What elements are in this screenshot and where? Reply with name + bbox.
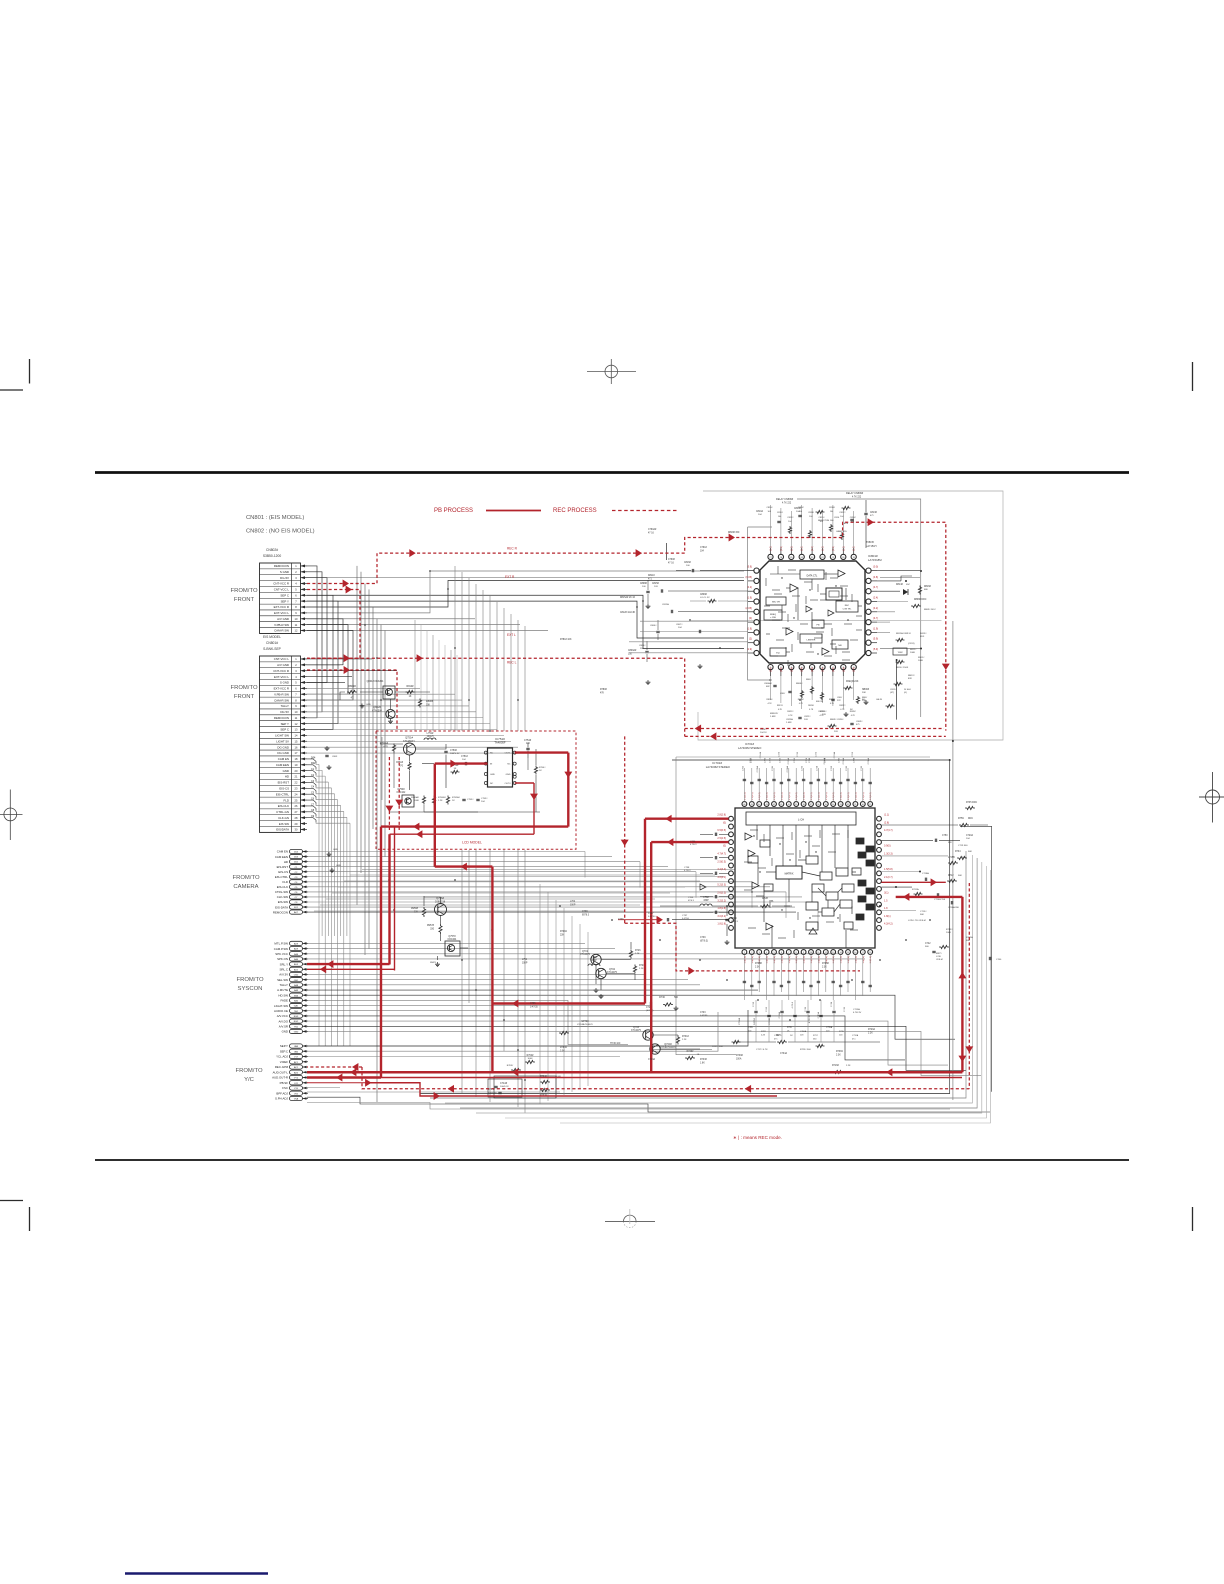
svg-text:100uH: 100uH [427, 736, 434, 738]
junction dots right nets [879, 570, 954, 907]
svg-text:TALLY: TALLY [281, 704, 289, 708]
svg-text:CAM EN: CAM EN [277, 850, 288, 854]
svg-text:YCL.ADJ: YCL.ADJ [276, 1055, 288, 1059]
dashed box LCD MODEL [376, 731, 576, 849]
svg-text:FLD: FLD [284, 798, 289, 802]
svg-text:C705: C705 [831, 765, 833, 771]
svg-text:CN2: CN2 [294, 975, 299, 977]
crop mark top-right [1192, 362, 1194, 391]
svg-text:L751#: L751# [427, 732, 434, 735]
svg-text:C706A: C706A [800, 1030, 807, 1033]
scattered labels syscon area [522, 901, 829, 968]
svg-text:(2.4): (2.4) [802, 667, 804, 672]
resistor R956 22K [411, 907, 426, 917]
svg-text:R713#: R713# [946, 929, 953, 931]
resistor R730 560 [659, 996, 678, 1006]
svg-text:S GND: S GND [280, 570, 289, 574]
svg-text:C810#: C810# [767, 507, 774, 509]
svg-text:R708#: R708# [755, 963, 762, 965]
svg-text:R739#: R739# [736, 1055, 743, 1057]
svg-text:EQ: EQ [776, 653, 779, 655]
svg-text:R956#: R956# [411, 907, 419, 910]
svg-text:R809# DDC: R809# DDC [924, 609, 936, 611]
svg-text:C751#: C751# [461, 756, 468, 758]
svg-text:1.4(1.4): 1.4(1.4) [804, 956, 806, 964]
resistor R750B [432, 796, 446, 805]
svg-text:C715#: C715# [920, 911, 927, 913]
svg-text:R809# C826#: R809# C826# [830, 719, 844, 721]
svg-text:1.0FF: 1.0FF [786, 722, 792, 724]
svg-text:C725: C725 [753, 1001, 755, 1007]
resistor R957 330 [427, 924, 442, 934]
svg-text:FADE: FADE [280, 999, 288, 1003]
svg-text:47 16: 47 16 [668, 562, 674, 564]
svg-text:LCD MODEL: LCD MODEL [462, 841, 482, 845]
svg-text:Y/C: Y/C [244, 1077, 255, 1083]
IC701 red pin labels bottom rotated [744, 956, 872, 964]
svg-text:1.4(1.4): 1.4(1.4) [848, 956, 850, 964]
svg-text:FLD: FLD [283, 880, 288, 884]
svg-text:C709: C709 [839, 757, 841, 763]
svg-text:MIC VR: MIC VR [772, 602, 780, 604]
svg-text:EXT-VCC L: EXT-VCC L [274, 675, 289, 679]
svg-text:(2): (2) [749, 638, 752, 641]
svg-text:1.4(1.4): 1.4(1.4) [752, 956, 754, 964]
svg-text:C738: C738 [582, 911, 588, 913]
bottom rule [95, 1159, 1129, 1161]
svg-text:C736: C736 [690, 841, 696, 843]
IC801 top pin row [768, 548, 856, 560]
svg-text:(1.9): (1.9) [791, 546, 793, 551]
svg-text:R751A#: R751A# [380, 742, 389, 745]
svg-text:82K: 82K [908, 678, 912, 680]
svg-text:SM23: SM23 [430, 962, 436, 964]
svg-text:HY36 100: HY36 100 [610, 1043, 621, 1045]
svg-text:C824#: C824# [760, 729, 767, 731]
IC801 internal logic blocks [764, 570, 862, 656]
svg-text:C732A: C732A [842, 757, 845, 764]
svg-text:4.7K: 4.7K [788, 715, 793, 717]
svg-text:2.2K: 2.2K [635, 953, 640, 955]
svg-text:CNT-VCC R: CNT-VCC R [273, 582, 289, 586]
svg-text:CLK-SW: CLK-SW [277, 895, 289, 899]
svg-text:EXT-VCC L: EXT-VCC L [274, 611, 289, 615]
svg-text:C718A: C718A [922, 872, 929, 875]
resistor R716 390 below right [832, 1065, 851, 1074]
svg-text:EXT-VCC R: EXT-VCC R [274, 687, 289, 691]
svg-text:EIS-CTRL: EIS-CTRL [275, 875, 289, 879]
svg-text:C812# 1G0.3K: C812# 1G0.3K [620, 612, 636, 614]
net stubs CN801 C-bus [307, 756, 316, 822]
capacitor row above IC701 [742, 757, 872, 801]
svg-text:(4.2): (4.2) [873, 607, 878, 610]
svg-text:4.7(4.7): 4.7(4.7) [717, 853, 726, 856]
red solid route regulator OUT1 [381, 753, 572, 1078]
svg-text:L745B: L745B [948, 857, 955, 859]
svg-text:6976.3: 6976.3 [582, 914, 590, 916]
svg-text:MFB12#: MFB12# [770, 713, 779, 715]
svg-text:EXT L: EXT L [507, 633, 516, 637]
svg-text:C814#: C814# [808, 512, 815, 514]
registration target left-middle [0, 790, 23, 841]
svg-text:∗ | : means REC mode.: ∗ | : means REC mode. [733, 1135, 782, 1140]
svg-text:V.REF: V.REF [280, 1060, 288, 1064]
svg-text:REMOCON: REMOCON [274, 716, 289, 720]
svg-text:SEP Y: SEP Y [281, 599, 289, 603]
svg-text:R728: R728 [762, 897, 768, 900]
svg-text:CTRL-GN: CTRL-GN [276, 810, 289, 814]
svg-text:C811#: C811# [777, 512, 784, 514]
svg-text:(2.4): (2.4) [771, 667, 773, 672]
svg-text:47 16: 47 16 [648, 532, 654, 534]
svg-text:LIGHT 5V: LIGHT 5V [276, 739, 289, 743]
wire bus CN802-CN801 interconnect verticals [307, 566, 353, 730]
svg-text:R726: R726 [635, 950, 641, 952]
svg-text:1.4(1.4): 1.4(1.4) [870, 956, 872, 964]
svg-text:HD: HD [284, 860, 288, 864]
IC801 red pin labels top (rotated) [771, 546, 856, 551]
svg-text:C807#: C807# [676, 624, 683, 626]
svg-text:FRONT: FRONT [234, 694, 255, 700]
svg-text:4.7/6.3: 4.7/6.3 [792, 1001, 794, 1008]
svg-text:1.8(1.8): 1.8(1.8) [717, 907, 726, 910]
transistor Q751 KTA1504Y [403, 736, 415, 756]
svg-text:C722: C722 [797, 751, 799, 757]
capacitor C803 [325, 754, 328, 756]
svg-text:LA7400M STEREO: LA7400M STEREO [706, 765, 731, 769]
svg-text:C805#: C805# [639, 645, 646, 647]
svg-text:1.2(1.2): 1.2(1.2) [789, 792, 791, 800]
regulator IC751 TA4805F [484, 737, 516, 787]
svg-text:1.4(1.4): 1.4(1.4) [855, 956, 857, 964]
components right of IC801 [862, 571, 936, 708]
connector CN852 FROM/TO SYSCON [274, 941, 308, 1033]
connector CN802 [260, 548, 308, 633]
svg-text:NB00#: NB00# [862, 689, 870, 691]
svg-text:V.PB-R SW: V.PB-R SW [274, 623, 289, 627]
red dashed route CNT-VCC R stub [307, 666, 397, 731]
svg-text:C701: C701 [846, 765, 848, 771]
svg-text:56K: 56K [920, 914, 924, 916]
svg-text:(2.4): (2.4) [843, 667, 845, 672]
crop mark bottom-left [0, 1200, 23, 1202]
svg-text:V.PB-R SW: V.PB-R SW [274, 692, 289, 696]
top rule [95, 471, 1129, 474]
svg-text:3.4(3.4): 3.4(3.4) [717, 868, 726, 871]
svg-text:C714H 154: C714H 154 [934, 899, 946, 901]
svg-text:IC701#: IC701# [745, 742, 754, 746]
svg-text:CNT-VCC R: CNT-VCC R [273, 669, 289, 673]
svg-text:56K: 56K [966, 940, 970, 942]
svg-text:104 1F: 104 1F [760, 732, 767, 734]
svg-text:GRAD 555: GRAD 555 [836, 530, 847, 533]
svg-text:A.MUTE: A.MUTE [277, 988, 288, 992]
svg-text:EIS MODEL: EIS MODEL [263, 635, 281, 639]
svg-text:C716: C716 [831, 1001, 833, 1007]
svg-text:1.4(1.4): 1.4(1.4) [789, 956, 791, 964]
transistor cluster Q802/Q803 front switch [340, 680, 434, 724]
svg-text:C711: C711 [861, 765, 863, 771]
svg-text:C816#: C816# [829, 507, 836, 509]
svg-text:C755#: C755# [467, 799, 474, 801]
connector CN853 FROM/TO Y/C [272, 1044, 308, 1101]
svg-text:2.3K: 2.3K [755, 966, 760, 968]
svg-text:2.3K: 2.3K [822, 966, 827, 968]
svg-text:1K: 1K [409, 696, 412, 698]
svg-text:C809#: C809# [700, 594, 707, 596]
svg-text:R752A#: R752A# [452, 796, 461, 799]
svg-text:R825#: R825# [819, 711, 826, 713]
wire transistor cluster nets [596, 942, 700, 1049]
svg-text:R727# 100: R727# 100 [712, 1046, 723, 1048]
svg-text:R729A: R729A [868, 1028, 875, 1031]
op-amp IC IC801 main body [760, 554, 882, 663]
svg-text:(SV5.3): (SV5.3) [646, 1010, 654, 1012]
crop mark bottom-right [1192, 1207, 1194, 1231]
wire L762 node [660, 905, 790, 936]
svg-text:C736: C736 [618, 919, 624, 921]
svg-text:(4.7): (4.7) [873, 617, 878, 620]
svg-text:C754#: C754# [524, 739, 532, 742]
svg-text:4.7/6.3V: 4.7/6.3V [853, 1012, 862, 1014]
transistor Q757 KRC404 digital [445, 935, 460, 956]
resistor R751 470 [396, 762, 411, 771]
svg-text:0.47/50: 0.47/50 [648, 916, 656, 918]
connector CN801 [260, 635, 308, 832]
svg-text:(47): (47) [890, 692, 894, 694]
svg-text:(5.9): (5.9) [873, 638, 878, 641]
svg-text:3(1): 3(1) [884, 892, 889, 895]
svg-text:4.7/6.3: 4.7/6.3 [684, 870, 691, 872]
svg-text:D814#: D814# [896, 584, 903, 586]
svg-text:HD.SW: HD.SW [278, 993, 288, 997]
wire bundle left vertical risers [357, 566, 525, 1113]
svg-text:4.7K: 4.7K [830, 703, 835, 705]
svg-text:1.6K: 1.6K [700, 1062, 705, 1064]
svg-text:C727: C727 [751, 757, 753, 763]
registration target right-middle [1199, 772, 1224, 823]
svg-text:C818#: C818# [850, 517, 857, 519]
svg-text:(2.4): (2.4) [873, 597, 878, 600]
svg-text:DG GND: DG GND [277, 751, 289, 755]
svg-text:3.0(3.2): 3.0(3.2) [717, 915, 726, 918]
svg-text:C704: C704 [772, 765, 774, 771]
svg-text:DDC: DDC [968, 818, 973, 820]
svg-text:(C811): (C811) [908, 643, 915, 645]
svg-text:R824#: R824# [808, 705, 815, 707]
capacitor C755 [462, 799, 474, 801]
svg-text:1.4(1.4): 1.4(1.4) [796, 956, 798, 964]
capacitor C750 100P [444, 750, 460, 755]
svg-text:2.1(0.7): 2.1(0.7) [884, 876, 893, 879]
svg-text:L745 L710 CFILM: L745 L710 CFILM [908, 920, 926, 922]
svg-text:(0): (0) [749, 617, 752, 620]
svg-text:LIMITER: LIMITER [807, 639, 816, 641]
red solid route C707 to IC701 pin13 [618, 913, 729, 924]
GND symbols scattered [594, 664, 869, 1011]
svg-text:REC R: REC R [507, 547, 518, 551]
svg-text:R812A# R813#: R812A# R813# [896, 632, 912, 635]
svg-text:0.9(0): 0.9(0) [884, 845, 891, 848]
svg-text:BPF.ADJ: BPF.ADJ [276, 1091, 288, 1095]
svg-text:2.2K: 2.2K [639, 968, 644, 970]
svg-text:C728: C728 [825, 757, 827, 763]
svg-text:(2.4): (2.4) [833, 667, 835, 672]
svg-text:LA71518M: LA71518M [868, 558, 882, 562]
wire mid horizontals [314, 870, 735, 912]
red solid route SRL.Y [307, 960, 390, 968]
svg-text:FREQ# 22K: FREQ# 22K [846, 681, 859, 683]
svg-text:(5.9): (5.9) [873, 648, 878, 651]
svg-text:C705: C705 [530, 1003, 536, 1005]
components above IC801 [756, 492, 877, 548]
svg-text:CN801#: CN801# [266, 641, 278, 645]
svg-text:CAM EEN: CAM EEN [275, 855, 288, 859]
red solid route IC701 pin1 feed [492, 815, 728, 1008]
svg-text:R709#: R709# [822, 963, 829, 965]
svg-text:R821#: R821# [777, 705, 784, 707]
svg-text:100K: 100K [527, 1058, 533, 1060]
svg-text:1.2(1.2): 1.2(1.2) [752, 792, 754, 800]
svg-text:RB12#: RB12# [908, 675, 915, 677]
wire bus Y/C nets [268, 1010, 990, 1112]
svg-text:(2.4): (2.4) [812, 667, 814, 672]
svg-text:R733#: R733# [700, 1059, 707, 1061]
svg-text:1.2(1.2): 1.2(1.2) [870, 792, 872, 800]
svg-text:R730: R730 [659, 996, 665, 999]
red solid route right return arrowed [881, 878, 945, 886]
resistor R750A 100K [411, 796, 426, 805]
svg-text:4.7K: 4.7K [799, 703, 804, 705]
junction dots wiring field [356, 570, 931, 1081]
svg-text:T080!#: T080!# [866, 541, 874, 544]
svg-text:4.7K: 4.7K [383, 747, 388, 749]
svg-text:(4.7): (4.7) [873, 586, 878, 589]
svg-text:C703B: C703B [769, 1017, 771, 1024]
svg-text:A/V.DO: A/V.DO [278, 1019, 288, 1023]
svg-text:R759: R759 [958, 817, 964, 820]
svg-text:L-CH: L-CH [798, 818, 804, 822]
svg-text:KRC404: KRC404 [448, 939, 457, 941]
red dashed bottom bus [307, 1063, 969, 1093]
svg-text:SPK.VCC: SPK.VCC [275, 952, 288, 956]
svg-text:4.7K 222: 4.7K 222 [852, 496, 862, 498]
svg-text:(0): (0) [723, 845, 726, 848]
svg-text:R818# 150: R818# 150 [728, 532, 740, 534]
svg-text:4.2(4.2): 4.2(4.2) [884, 923, 893, 926]
svg-text:GND: GND [282, 1030, 288, 1034]
svg-text:C744#: C744# [500, 1082, 508, 1085]
svg-text:C712: C712 [844, 1006, 846, 1012]
svg-text:4.0(4.0): 4.0(4.0) [717, 876, 726, 879]
svg-text:1.6FF: 1.6FF [770, 716, 776, 718]
svg-text:C725: C725 [769, 757, 771, 763]
svg-text:C813#: C813# [870, 512, 877, 514]
svg-text:REC L: REC L [507, 661, 517, 665]
svg-text:R808# DDC: R808# DDC [914, 599, 927, 601]
svg-text:100K: 100K [414, 800, 420, 802]
svg-text:CNT-VCC L: CNT-VCC L [274, 588, 290, 592]
svg-text:(2.8): (2.8) [884, 821, 889, 824]
svg-text:C744A: C744A [648, 1058, 655, 1061]
svg-text:100/6.3V: 100/6.3V [500, 1086, 509, 1088]
capacitor row below IC701 [700, 954, 872, 1025]
svg-text:NC: NC [490, 783, 494, 785]
svg-text:R750A#: R750A# [411, 796, 420, 799]
svg-text:4.7K: 4.7K [768, 703, 773, 705]
svg-text:(1.9): (1.9) [854, 546, 856, 551]
IC801 interior detail lines [764, 566, 862, 666]
svg-text:22K: 22K [560, 934, 565, 936]
svg-text:D811#: D811# [648, 575, 655, 577]
IC801 left pin column [748, 568, 759, 656]
svg-text:4.7K: 4.7K [809, 709, 814, 711]
svg-text:FREQ: FREQ [770, 614, 776, 616]
svg-text:2.2K: 2.2K [761, 1034, 766, 1036]
svg-text:SEL.SW: SEL.SW [277, 978, 288, 982]
svg-text:KTC4075: KTC4075 [580, 954, 590, 956]
resistor R722 [633, 965, 645, 974]
svg-text:A/V.VCC: A/V.VCC [277, 1014, 288, 1018]
capacitor C751 104 [461, 756, 468, 765]
IC801 bottom pin row [768, 665, 856, 677]
svg-text:C810A: C810A [756, 510, 763, 513]
svg-text:DG-5V: DG-5V [280, 576, 289, 580]
resistor R765 [507, 1065, 521, 1072]
svg-text:R764#: R764# [527, 1055, 534, 1057]
svg-text:REC: REC [845, 605, 850, 607]
svg-text:GA1: GA1 [294, 1005, 299, 1008]
svg-text:DG 5V: DG 5V [280, 710, 289, 714]
svg-text:SEP Y: SEP Y [281, 722, 289, 726]
svg-text:TA4805F: TA4805F [494, 741, 506, 745]
svg-text:R815A# 2K 16: R815A# 2K 16 [620, 596, 636, 599]
svg-text:FROM/TO: FROM/TO [230, 588, 257, 594]
svg-text:Q801# KRA304: Q801# KRA304 [367, 680, 384, 683]
footer underline [125, 1572, 268, 1574]
svg-text:L762: L762 [570, 901, 576, 903]
svg-text:C750#: C750# [450, 750, 457, 752]
resistor network below IC701 [488, 1035, 880, 1098]
svg-text:DELAY CN809#: DELAY CN809# [776, 498, 794, 501]
red dashed route REC R (PB bus) [307, 518, 950, 730]
capacitor C720 [646, 1002, 654, 1012]
svg-text:R7644: R7644 [560, 1047, 567, 1049]
svg-text:1.4(1.4): 1.4(1.4) [811, 956, 813, 964]
svg-text:0.47/50: 0.47/50 [682, 918, 690, 920]
svg-text:C706A: C706A [786, 765, 789, 772]
svg-text:TALLY: TALLY [280, 983, 288, 987]
svg-text:CAM EN: CAM EN [278, 757, 289, 761]
svg-text:GN0: GN0 [294, 1032, 299, 1034]
svg-text:R731#: R731# [682, 1036, 689, 1038]
svg-text:SEP.Y: SEP.Y [280, 1044, 288, 1048]
svg-text:C761#: C761# [700, 547, 707, 549]
svg-text:C726A: C726A [787, 757, 790, 764]
svg-text:C731A: C731A [833, 751, 836, 758]
svg-text:CAM-R SW: CAM-R SW [274, 629, 289, 633]
svg-text:R828#: R828# [850, 711, 857, 713]
svg-text:RG3: RG3 [294, 1016, 299, 1018]
svg-text:C811#: C811# [890, 689, 897, 691]
svg-text:R751#: R751# [396, 762, 403, 764]
svg-text:1.4(1.4): 1.4(1.4) [841, 956, 843, 964]
svg-text:2.2K: 2.2K [868, 1032, 873, 1034]
svg-text:4.7K: 4.7K [851, 715, 856, 717]
red solid route regulator IN [435, 760, 493, 1073]
svg-text:1.4(1.4): 1.4(1.4) [863, 956, 865, 964]
svg-text:C760A#: C760A# [648, 528, 657, 531]
